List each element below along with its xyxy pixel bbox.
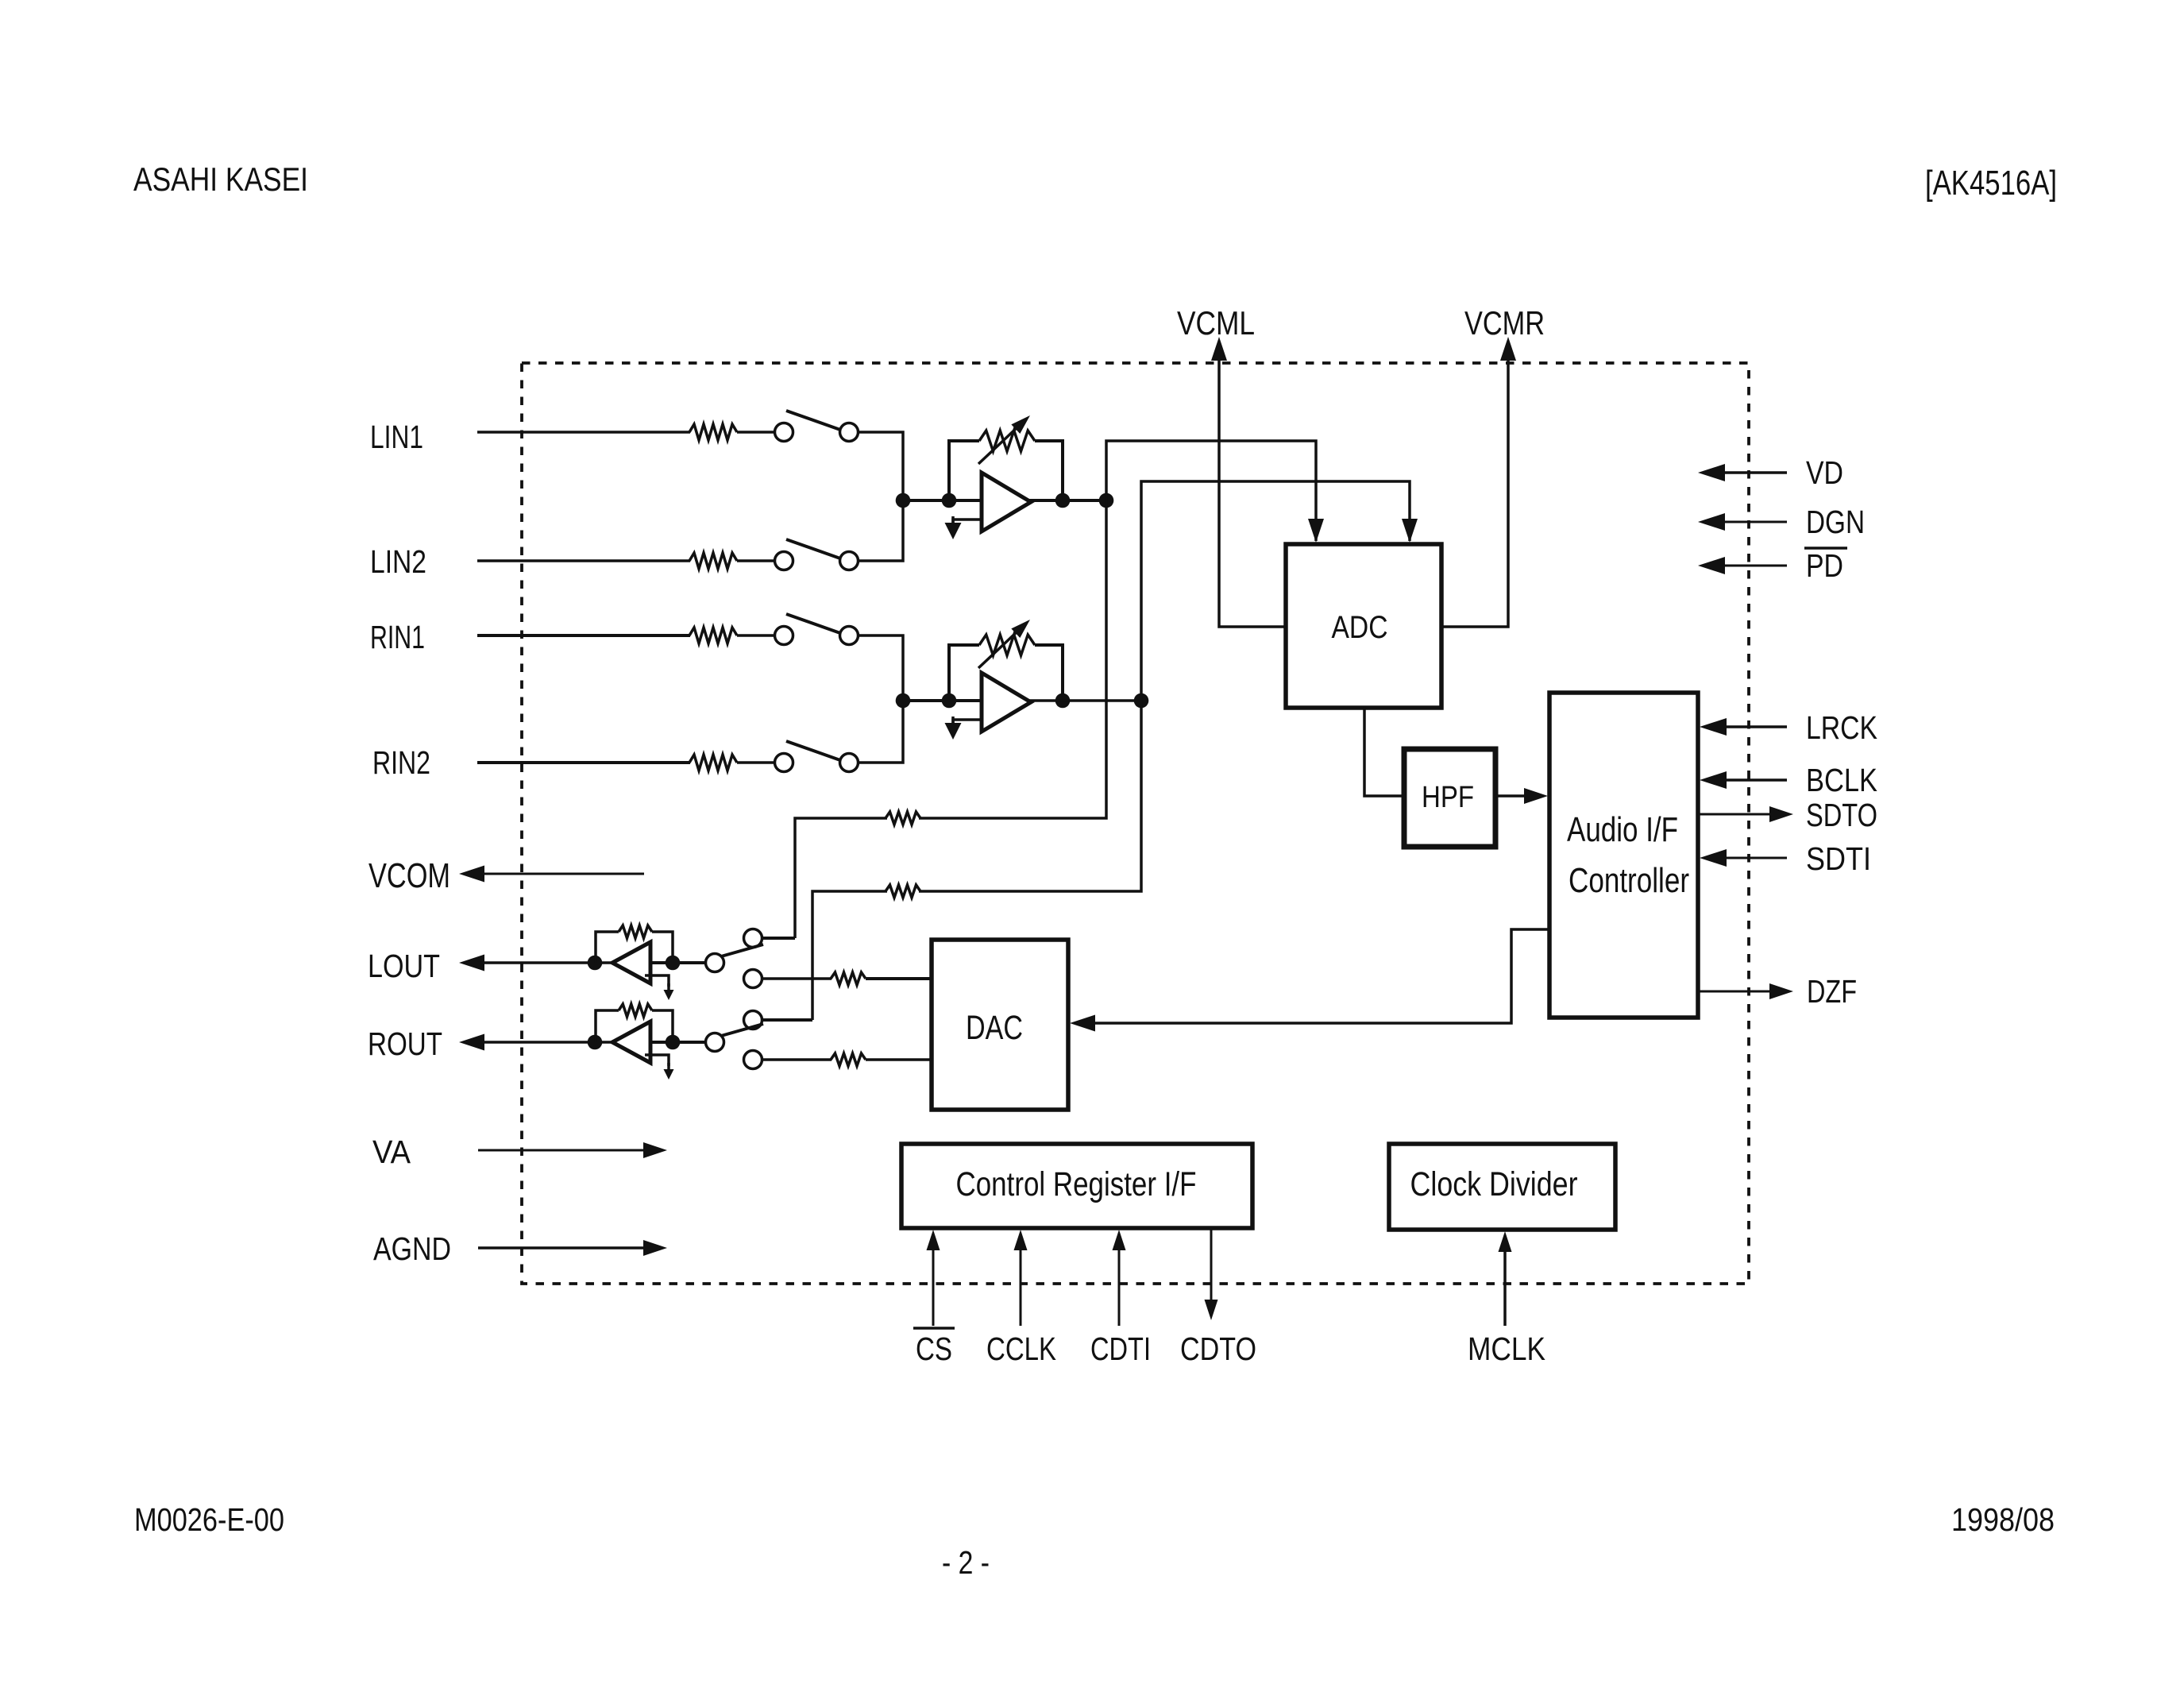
svg-text:CDTO: CDTO: [1180, 1331, 1256, 1367]
arrowhead DZF: [1769, 983, 1793, 999]
switch SW-RIN1 contact B: [840, 627, 859, 645]
svg-text:DGN: DGN: [1806, 504, 1865, 540]
chip boundary (dashed box): [522, 363, 1749, 1284]
svg-text:PD: PD: [1806, 547, 1843, 584]
pin label DZF: [1807, 973, 1857, 1010]
svg-text:HPF: HPF: [1422, 781, 1474, 814]
wire LOUT input from switch: [650, 961, 706, 964]
wire CS: [932, 1239, 935, 1326]
label Audio I/F: [1567, 810, 1678, 849]
pin label VA: [372, 1134, 411, 1170]
arrowhead VA in: [643, 1142, 667, 1158]
switch SW-LIN1 lever: [786, 411, 840, 430]
wire R output up to ADC: [1141, 481, 1410, 701]
pin label VD: [1806, 454, 1843, 491]
arrowhead CDTI up: [1113, 1230, 1126, 1250]
switch SW-LIN1 contact A: [775, 423, 793, 442]
ground at R PGA: [945, 717, 962, 740]
wire ROUT output: [477, 1041, 613, 1044]
svg-text:Clock Divider: Clock Divider: [1410, 1165, 1578, 1203]
pin label AGND: [373, 1230, 451, 1267]
wire RIN2 resistor to switch: [737, 761, 774, 764]
wire VCML: [1219, 354, 1286, 627]
node L amp output junction: [1055, 493, 1071, 508]
pin label BCLK: [1806, 762, 1877, 798]
arrow of variable resistor R PGA: [978, 620, 1030, 668]
svg-text:VCOM: VCOM: [369, 856, 450, 895]
wire AGND: [478, 1246, 650, 1250]
svg-text:ASAHI KASEI: ASAHI KASEI: [133, 160, 308, 198]
pin label ROUT: [368, 1026, 442, 1062]
wire LIN2 switch to node: [859, 500, 903, 561]
wire L mix row: [795, 818, 887, 938]
pin label LOUT: [368, 948, 440, 984]
variable resistor L PGA feedback: [979, 431, 1035, 451]
svg-text:VD: VD: [1806, 454, 1843, 491]
svg-text:VCML: VCML: [1177, 304, 1255, 342]
pin label CCLK: [986, 1331, 1056, 1367]
resistor RIN2 input: [689, 755, 737, 771]
switch SW-LIN2 contact B: [840, 552, 859, 570]
wire RIN1 switch to node: [859, 635, 903, 701]
wire resistor to DAC R: [866, 1058, 932, 1061]
svg-text:LOUT: LOUT: [368, 948, 440, 984]
svg-text:M0026-E-00: M0026-E-00: [134, 1501, 284, 1538]
switch DACR throw 3 contact: [744, 1011, 762, 1029]
page header part number [AK4516A]: [1925, 164, 2057, 203]
wire ROUT feedback loop: [596, 1010, 619, 1042]
wire throw3 to R mix vertical: [762, 1018, 812, 1022]
node L output to routing: [1099, 493, 1114, 508]
arrowhead into ADC right input: [1402, 519, 1418, 543]
switch DACL throw 1 contact: [744, 929, 762, 948]
block ADC: [1286, 544, 1441, 708]
label Clock Divider: [1410, 1165, 1578, 1203]
resistor RIN1 input: [689, 628, 737, 643]
arrowhead MCLK up: [1499, 1231, 1512, 1252]
wire throw2 to resistor: [762, 977, 832, 980]
pin label RIN2: [372, 744, 430, 781]
wire throw4 to resistor: [762, 1058, 832, 1061]
wire resistor to DAC L: [866, 977, 932, 980]
arrowhead SDTO: [1769, 806, 1793, 822]
arrowhead ROUT out: [459, 1034, 484, 1051]
label DAC: [966, 1009, 1023, 1047]
label Controller: [1569, 861, 1689, 900]
svg-text:DZF: DZF: [1807, 973, 1857, 1010]
resistor LOUT feedback: [619, 925, 652, 938]
wire R mix row right: [919, 701, 1141, 891]
wire Audio I/F to DAC: [1088, 929, 1549, 1023]
wire L feedback right vertical: [1035, 441, 1063, 500]
wire HPF to Audio I/F: [1495, 794, 1529, 798]
node L sum junction: [896, 493, 911, 508]
arrowhead into DAC: [1070, 1015, 1095, 1032]
wire LOUT feedback right: [652, 932, 673, 963]
node ROUT output junction: [588, 1035, 603, 1050]
svg-text:LIN2: LIN2: [370, 543, 426, 580]
wire R sum to amp input: [903, 699, 982, 702]
switch SW-RIN2 lever: [786, 741, 840, 760]
wire CDTO: [1210, 1228, 1213, 1303]
svg-text:SDTO: SDTO: [1806, 797, 1877, 833]
switch LOUT pole contact: [706, 954, 724, 972]
svg-text:ROUT: ROUT: [368, 1026, 442, 1062]
svg-text:Control Register I/F: Control Register I/F: [956, 1165, 1197, 1203]
svg-text:RIN2: RIN2: [372, 744, 430, 781]
wire LIN2 input: [477, 559, 690, 562]
ground at L PGA: [945, 516, 962, 539]
resistor L mix: [886, 812, 920, 825]
arrowhead AGND in: [643, 1240, 667, 1256]
svg-text:Audio I/F: Audio I/F: [1567, 810, 1678, 849]
resistor DAC R input: [831, 1053, 866, 1066]
wire L sum to amp input: [903, 499, 982, 502]
variable resistor R PGA feedback: [979, 635, 1035, 655]
block HPF: [1404, 749, 1495, 847]
wire CDTI: [1118, 1239, 1121, 1326]
svg-text:LRCK: LRCK: [1806, 709, 1877, 746]
pin label CS (active low): [913, 1328, 955, 1367]
switch SW-RIN2 contact A: [775, 754, 793, 772]
label Control Register I/F: [956, 1165, 1197, 1203]
svg-text:VA: VA: [372, 1134, 411, 1170]
arrowhead VCML up: [1211, 337, 1227, 361]
wire SDTI: [1715, 857, 1787, 859]
node ROUT amp input junction: [666, 1035, 681, 1050]
op-amp L PGA: [982, 473, 1031, 531]
resistor LIN2 input: [689, 553, 737, 569]
footer page number - 2 -: [942, 1544, 990, 1581]
arrowhead CS up: [927, 1230, 940, 1250]
resistor ROUT feedback: [619, 1004, 652, 1017]
pin label LRCK: [1806, 709, 1877, 746]
pin label LIN1: [370, 419, 423, 455]
node LOUT amp input junction: [666, 956, 681, 971]
pin label LIN2: [370, 543, 426, 580]
wire R feedback left vertical: [949, 645, 979, 701]
pin label PD (active low): [1804, 547, 1847, 584]
switch SW-RIN2 contact B: [840, 754, 859, 772]
wire LOUT ground stub: [645, 975, 669, 987]
arrowhead CDTO down: [1205, 1300, 1218, 1320]
wire MCLK: [1503, 1241, 1507, 1326]
svg-text:[AK4516A]: [AK4516A]: [1925, 164, 2057, 203]
svg-text:Controller: Controller: [1569, 861, 1689, 900]
arrowhead DGN: [1698, 513, 1725, 531]
wire LRCK: [1715, 725, 1787, 728]
footer document number M0026-E-00: [134, 1501, 284, 1538]
wire VD: [1715, 471, 1787, 474]
arrow of variable resistor L PGA: [978, 415, 1030, 464]
arrowhead CCLK up: [1014, 1230, 1028, 1250]
wire CCLK: [1020, 1239, 1022, 1326]
label HPF: [1422, 781, 1474, 814]
resistor DAC L input: [831, 972, 866, 985]
wire VCMR: [1441, 354, 1508, 627]
wire VCOM: [477, 873, 644, 875]
node R sum junction: [896, 693, 911, 709]
wire LIN1 resistor to switch: [737, 431, 774, 434]
switch ROUT pole contact: [706, 1033, 724, 1052]
pin label RIN1: [370, 619, 425, 655]
wire ADC to HPF: [1364, 708, 1404, 796]
op-amp LOUT buffer: [612, 942, 650, 983]
node R output to routing: [1134, 693, 1149, 709]
svg-text:CS: CS: [916, 1331, 952, 1367]
wire LOUT feedback loop: [596, 932, 619, 963]
switch ROUT lever: [721, 1024, 763, 1036]
wire SDTO: [1698, 813, 1773, 816]
wire LIN2 resistor to switch: [737, 559, 774, 562]
svg-text:MCLK: MCLK: [1468, 1331, 1545, 1367]
pin label CDTI: [1090, 1331, 1151, 1367]
arrowhead into Audio I/F: [1524, 788, 1548, 804]
pin label CDTO: [1180, 1331, 1256, 1367]
wire DZF: [1698, 991, 1773, 993]
op-amp ROUT buffer: [612, 1022, 650, 1063]
op-amp R PGA: [982, 673, 1031, 732]
switch SW-LIN2 lever: [786, 539, 840, 558]
svg-text:1998/08: 1998/08: [1951, 1501, 2055, 1538]
wire R amp output: [1029, 699, 1141, 702]
wire LOUT output: [477, 961, 613, 964]
arrowhead BCLK: [1700, 771, 1727, 789]
wire LIN1 input: [477, 431, 690, 434]
wire R mix row: [812, 891, 887, 1020]
wire ROUT ground stub: [645, 1055, 669, 1066]
wire RIN1 resistor to switch: [737, 634, 774, 637]
switch DACR throw 4 contact: [744, 1051, 762, 1069]
wire DGN: [1715, 521, 1787, 523]
block DAC: [932, 940, 1068, 1110]
pin label DGN: [1806, 504, 1865, 540]
resistor R mix: [886, 885, 920, 898]
label ADC: [1332, 610, 1388, 645]
svg-text:AGND: AGND: [373, 1230, 451, 1267]
wire L amp ground stub: [953, 520, 982, 524]
svg-text:VCMR: VCMR: [1464, 304, 1545, 342]
svg-text:DAC: DAC: [966, 1009, 1023, 1047]
node R amp input junction: [942, 693, 957, 709]
pin label MCLK: [1468, 1331, 1545, 1367]
svg-text:LIN1: LIN1: [370, 419, 423, 455]
switch SW-LIN1 contact B: [840, 423, 859, 442]
switch SW-LIN2 contact A: [775, 552, 793, 570]
pin label VCMR: [1464, 304, 1545, 342]
arrowhead VD: [1698, 464, 1725, 481]
pin label VCOM: [369, 856, 450, 895]
block Audio I/F Controller: [1549, 693, 1698, 1018]
arrowhead into ADC left input: [1308, 519, 1324, 543]
arrowhead LOUT out: [459, 955, 484, 971]
wire RIN2 switch to node: [859, 701, 903, 763]
wire L mix row right: [919, 500, 1106, 818]
svg-text:CDTI: CDTI: [1090, 1331, 1151, 1367]
wire L amp output: [1029, 499, 1106, 502]
wire ROUT feedback right: [652, 1010, 673, 1042]
wire VA: [478, 1149, 650, 1152]
switch SW-RIN1 lever: [786, 614, 840, 633]
footer date 1998/08: [1951, 1501, 2055, 1538]
node LOUT output junction: [588, 956, 603, 971]
arrowhead VCOM: [459, 866, 484, 883]
wire throw1 to L mix vertical: [762, 937, 795, 940]
block Clock Divider: [1389, 1144, 1615, 1230]
switch SW-RIN1 contact A: [775, 627, 793, 645]
wire R amp ground stub: [953, 720, 982, 724]
wire L feedback left vertical: [949, 441, 979, 500]
pin label SDTI: [1806, 840, 1871, 877]
arrowhead PD: [1698, 557, 1725, 574]
resistor LIN1 input: [689, 424, 737, 440]
arrowhead LRCK: [1700, 718, 1727, 736]
switch DACL throw 2 contact: [744, 970, 762, 988]
svg-text:ADC: ADC: [1332, 610, 1388, 645]
svg-text:CCLK: CCLK: [986, 1331, 1056, 1367]
switch LOUT lever: [721, 944, 763, 956]
wire L output up to ADC: [1106, 441, 1316, 541]
pin label SDTO: [1806, 797, 1877, 833]
svg-text:SDTI: SDTI: [1806, 840, 1871, 877]
wire BCLK: [1715, 778, 1787, 782]
node L amp input junction: [942, 493, 957, 508]
wire RIN2 input: [477, 761, 690, 764]
svg-text:BCLK: BCLK: [1806, 762, 1877, 798]
block Control Register I/F: [901, 1144, 1252, 1228]
ground at ROUT amp: [663, 1063, 673, 1080]
ground at LOUT amp: [663, 983, 673, 1000]
svg-text:RIN1: RIN1: [370, 619, 425, 655]
arrowhead VCMR up: [1500, 337, 1516, 361]
arrowhead SDTI: [1700, 849, 1727, 867]
page header company name ASAHI KASEI: [133, 160, 308, 198]
wire PD: [1715, 565, 1787, 567]
wire LIN1 switch to node: [859, 432, 903, 500]
node R amp output junction: [1055, 693, 1071, 709]
wire R feedback right vertical: [1035, 645, 1063, 701]
wire RIN1 input: [477, 634, 690, 637]
svg-text:- 2 -: - 2 -: [942, 1544, 990, 1581]
wire ROUT input from switch: [650, 1041, 706, 1044]
pin label VCML: [1177, 304, 1255, 342]
